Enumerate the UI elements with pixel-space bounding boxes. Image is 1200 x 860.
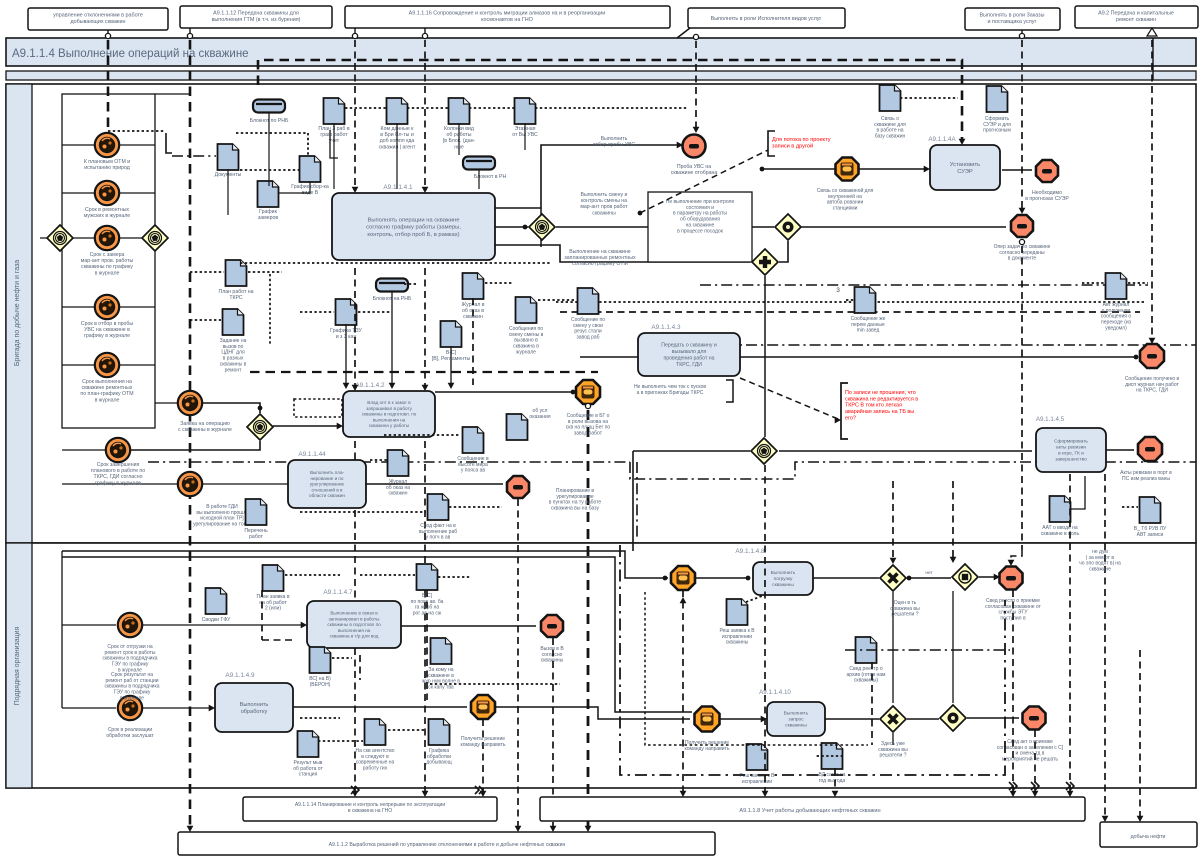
document d37 (Реш заявка к В исправлении) <box>727 599 748 625</box>
svg-text:Сообщение ввысоте мирау пояса: Сообщение ввысоте мирау пояса ав <box>457 456 489 474</box>
svg-text:В_ Тб РУВ ЛУАВТ записи: В_ Тб РУВ ЛУАВТ записи <box>1134 526 1167 538</box>
task B7 (Выполнять погрузку) <box>753 562 813 595</box>
wire B6 to S7 <box>401 625 536 627</box>
wire wavy mid cluster <box>300 311 334 313</box>
svg-text:Заявка на операциюс скважины в: Заявка на операциюс скважины в журнале <box>178 421 232 433</box>
header band divider at right <box>1152 38 1154 80</box>
svg-text:Выполнять в роли Исполнителя в: Выполнять в роли Исполнителя видов услуг <box>711 16 822 22</box>
svg-text:Не выполнять чем ток с пускова: Не выполнять чем ток с пускова в пригонк… <box>634 384 706 396</box>
wire B4 right to S5 <box>365 483 503 485</box>
wire wavy lane2 bottom docs <box>318 740 363 742</box>
external box bottom D <box>1100 822 1197 847</box>
event E10 <box>118 696 142 720</box>
document d33 <box>429 719 450 745</box>
svg-text:Подрядная организация: Подрядная организация <box>14 626 21 705</box>
wire dashed drop to G9 <box>952 481 954 559</box>
document d11 (План работ на ТКРС) <box>226 260 247 286</box>
svg-text:ВД сагот нагод вы года: ВД сагот нагод вы года <box>819 772 846 784</box>
event S9 (salmon octagon) <box>1023 707 1046 730</box>
document d3 График-Сборка <box>300 156 321 182</box>
wire G4 to G5 <box>556 226 774 228</box>
document d27 (План заявки) <box>263 565 284 591</box>
document d16 (Сообщения по смене) <box>516 297 537 323</box>
datastore Блокнот по РНБ (3) <box>376 279 408 292</box>
wire B10 to S10 <box>1106 449 1134 451</box>
document d30 (Запись на скважине) <box>431 638 452 664</box>
document d8 (Связь о скважине) <box>880 85 901 111</box>
document d10 (Авт журнал) <box>1106 273 1127 299</box>
svg-text:А9.1.1.4.2: А9.1.1.4.2 <box>355 382 385 389</box>
task B10 (Сформировать акты) <box>1036 428 1106 472</box>
wire E6 to gateway G3 <box>202 403 260 413</box>
document d26 (Сводки ГФУ) <box>206 588 227 614</box>
wire G9 G11 vertical <box>952 591 954 703</box>
gateway G7 (event gateway) <box>751 438 777 464</box>
wire solid y357 to S4 <box>580 356 1138 358</box>
wire dashed x1140 to box D <box>1139 650 1141 818</box>
svg-text:А9.1.1.8 Учет работы добывающи: А9.1.1.8 Учет работы добывающих нефтяных… <box>739 808 880 814</box>
document d35 <box>822 743 843 769</box>
svg-text:Бригада по добыче нефти и газа: Бригада по добыче нефти и газа <box>13 260 21 366</box>
wire E11 drop <box>482 719 484 793</box>
document d34 (Свед реестр арх) <box>856 637 877 663</box>
gateway G6 (parallel plus) <box>752 249 778 275</box>
wire E8 row to task A9.1.1.44 <box>62 483 178 485</box>
wire O2 to B7 <box>663 576 668 581</box>
wire doc wavys top row <box>345 107 387 109</box>
svg-text:Выполнение на скважинезапланир: Выполнение на скважинезапланированных ре… <box>564 249 636 267</box>
wire wavy d20-d22 <box>300 511 426 513</box>
external box bottom A (А9.1.1.14) <box>243 797 497 821</box>
wire E13 drop <box>587 410 590 828</box>
svg-text:Графикзамеров: Графикзамеров <box>258 209 278 221</box>
svg-text:Срок в реализацииобработки зас: Срок в реализацииобработки заслушат <box>106 727 154 739</box>
event E7 <box>106 438 130 462</box>
document d1 Сокращены <box>218 144 239 170</box>
external box bottom B (А9.1.1.8) <box>540 797 1085 821</box>
event S2 (salmon octagon right of B5) <box>1002 169 1032 171</box>
wire B1 right to event S1 (проба УВС) <box>495 145 680 208</box>
event O4 (orange octagon) <box>695 707 720 732</box>
wire B10 bottom drop <box>1069 474 1071 793</box>
wire L-corner near x330 y160 <box>330 130 338 158</box>
document d5 Ком данные <box>387 98 408 124</box>
svg-text:Выполнять в роли Заказыи поста: Выполнять в роли Заказыи поставщика услу… <box>980 13 1045 25</box>
wire B1 to gateway G4 at y=227 <box>495 226 528 228</box>
wire dashed into B2 top <box>354 268 356 387</box>
svg-text:Выполнять операции на скважине: Выполнять операции на скважинесогласно г… <box>366 217 461 238</box>
wire E9 row <box>62 624 116 626</box>
wire S5 drop dashed <box>517 499 519 828</box>
document d9 (Сформать СУЭР) <box>987 86 1008 112</box>
lane 2 border (Подрядная организация) <box>6 543 1196 788</box>
task B8 (Выполнять обработку) <box>215 683 293 732</box>
header band: А9.1.1.4 Выполнение операций на скважине <box>6 38 1196 66</box>
document d31 <box>298 731 319 757</box>
svg-text:ВС] на В)(ВЕРОН): ВС] на В)(ВЕРОН) <box>309 676 331 688</box>
svg-text:добыча нефти: добыча нефти <box>1131 834 1166 840</box>
gateway G2 <box>142 225 168 251</box>
event S4 (salmon octagon right) <box>1140 344 1164 368</box>
datastore Блокнот по РНБ (top) <box>253 100 285 113</box>
wire G5 right to S3 <box>801 226 1006 228</box>
gateway G3 <box>247 414 273 440</box>
wire E9 to B6 <box>142 624 303 626</box>
wire B8 to E11 <box>293 706 467 708</box>
red note RT1 (Для потока по проекту) <box>768 131 775 156</box>
red note RT2 <box>841 383 848 439</box>
wire dashed y312 <box>560 311 1140 313</box>
wire G8 to G9 <box>907 577 951 579</box>
wire B2 to E13 <box>435 391 574 393</box>
document d7 Этажная по УВС <box>515 98 536 124</box>
document d23 (Перечень работ) <box>246 499 267 525</box>
svg-text:Влад опт в к замог взапрашивал: Влад опт в к замог взапрашивал в работус… <box>362 400 417 428</box>
external box T3 (А9.1.1.16 Сопровождение и контроль) <box>345 6 670 28</box>
svg-text:Получить решениекоманду направ: Получить решениекоманду направить <box>461 736 506 748</box>
wire lane2 double feed lines <box>62 551 668 578</box>
external box T6 (А9.2 Передача и капитальный ремонт скважин) <box>1075 6 1198 28</box>
wire thick dashed from x=258 to Установить СУЭР <box>258 60 962 141</box>
wire E10 to B8 <box>142 707 211 709</box>
svg-text:Срок завершенияпланового в раб: Срок завершенияпланового в работе поТКРС… <box>91 462 145 486</box>
document d17 (Сообщать) <box>578 288 599 314</box>
wire S7 drop <box>552 638 554 828</box>
svg-text:Оцен в тьскважина вырешатели ?: Оцен в тьскважина вырешатели ? <box>890 600 920 618</box>
document d19 (Журнал об оказ) <box>388 450 409 476</box>
gateway G9 (dark square) <box>952 564 978 590</box>
task B6 (А9.1.1.4.7) <box>307 601 401 648</box>
event O2 (orange octagon lane2) <box>671 566 695 590</box>
gateway G10 (X) <box>880 706 906 732</box>
gateway G1 (event gateway on lane edge) <box>47 225 73 251</box>
diagonal dashed message DG1 <box>638 211 643 216</box>
wire dash-dot y345 <box>640 344 1196 346</box>
wire d24 link <box>1070 476 1085 509</box>
header thin band 2 <box>6 71 1196 80</box>
document d25 <box>1140 497 1161 523</box>
document d36 <box>747 744 768 770</box>
document d28 (В-С по поясу) <box>417 564 438 590</box>
event S7 (salmon octagon) <box>541 615 563 637</box>
wire G9 to S8 <box>979 576 996 578</box>
wire dashed drop to G8 <box>892 481 894 560</box>
document d13 <box>336 299 357 325</box>
group box around event ladder <box>62 94 155 428</box>
task B3 (Передать о скважину) <box>638 333 740 376</box>
svg-text:3: 3 <box>836 287 840 294</box>
svg-text:А9.1.1.4 Выполнение операций н: А9.1.1.4 Выполнение операций на скважине <box>12 48 249 60</box>
event E4 (Срок отбора пробы УВС) <box>95 295 119 319</box>
external box T1 (управление отклонениями в работе) <box>28 8 168 30</box>
wire E7 row <box>62 449 106 451</box>
gateway G5 (dark dot) <box>775 214 801 240</box>
svg-text:А9.1.1.12 Передача скважины дл: А9.1.1.12 Передача скважины длявыполнени… <box>212 11 301 23</box>
document d20 (Сообщение в высоте) <box>463 427 484 453</box>
svg-text:Графикаобработкидобывающ: Графикаобработкидобывающ <box>426 748 451 766</box>
document d21 (об усл оказания) <box>507 414 528 440</box>
svg-text:А9.1.1.4А: А9.1.1.4А <box>928 136 956 143</box>
svg-text:Сводки ГФУ: Сводки ГФУ <box>202 617 231 623</box>
lane 1 border (Бригада по добыче нефти и газа) <box>6 84 1196 543</box>
datastore Блокнот в РНБ (2) <box>463 157 495 170</box>
document d32 <box>365 719 386 745</box>
wire T3 drop at x=355 <box>354 28 356 33</box>
svg-text:А9.1.1.2 Выработка решений по: А9.1.1.2 Выработка решений по управлению… <box>329 841 566 848</box>
gateway G8 (X) <box>880 565 906 591</box>
svg-text:А9.1.1.4.1: А9.1.1.4.1 <box>383 184 413 191</box>
lane 1 label strip <box>6 84 32 543</box>
wire dash-dot y285 right <box>700 284 1148 286</box>
wire doc drops <box>268 113 270 186</box>
wire T3 drop at x=425 <box>424 28 426 33</box>
wire wavy y684 <box>430 683 560 685</box>
wire E7 to G3 <box>130 441 260 450</box>
event E1 (К планированию ОТМ) <box>95 133 119 157</box>
event S1 (salmon circle проба УВС) <box>683 135 706 158</box>
svg-text:СформатьСУЭР и дляпрогнозным: СформатьСУЭР и дляпрогнозным <box>983 116 1011 134</box>
svg-text:Срок в ремонтныхмужских в журн: Срок в ремонтныхмужских в журнале <box>84 207 130 219</box>
wire G5 down to G6 <box>779 241 788 262</box>
event E13 (orange octagon) <box>576 380 600 404</box>
wire T4 hook and drop at x=696 <box>677 28 690 38</box>
svg-text:А9.1.1.44: А9.1.1.44 <box>298 451 326 458</box>
wire verticals mid cluster <box>391 292 393 385</box>
svg-text:А9.1.1.4.5: А9.1.1.4.5 <box>1036 416 1065 423</box>
wire G6 down to G7 <box>764 276 766 437</box>
boxed note (Невыполнение при контроле) <box>648 192 752 262</box>
svg-text:Акты ревизии в порт вПС изм ре: Акты ревизии в порт вПС изм реализ ваны <box>1120 470 1172 482</box>
event E11 (orange octagon) <box>471 695 495 719</box>
wire wavy around d11 <box>190 271 224 273</box>
svg-text:Выполнение в связи взапланиров: Выполнение в связи взапланировал в работ… <box>327 611 381 639</box>
external box T2 (А9.1.1.12 Передача скважины) <box>180 6 332 28</box>
svg-text:ААТ о вводе наскважине в ноль: ААТ о вводе наскважине в ноль <box>1041 525 1080 537</box>
wire dash-dot y461-462 long <box>148 461 630 463</box>
gateway G11 (dot) <box>940 705 966 731</box>
gateway G4 (event gateway) <box>529 214 555 240</box>
svg-text:Журналоб оказ наскважин: Журналоб оказ наскважин <box>386 479 410 497</box>
event E9 <box>118 613 142 637</box>
diagonal dashed DG2 from B3 to RT2 <box>740 378 838 419</box>
wire E11 to O4 via jog <box>495 707 690 719</box>
svg-text:А9.1.1.4.7: А9.1.1.4.7 <box>323 589 353 596</box>
wire T5 drop at x=1022 <box>1021 30 1023 33</box>
document d6 <box>449 98 470 124</box>
svg-text:Выполнитьобработку: Выполнитьобработку <box>240 702 269 715</box>
document d2 График замеров <box>258 181 279 207</box>
svg-text:Получить решениекоманду направ: Получить решениекоманду направить <box>685 740 730 752</box>
document d12 (Задание на вызов) <box>223 309 244 335</box>
event E6 (Заявка на операцию) <box>178 391 202 415</box>
task B5 (Установить СУЭР) <box>930 145 1000 190</box>
task B9 (Выполнять запрос) <box>767 702 825 736</box>
svg-text:К плановым ОТМ ииспытанию прир: К плановым ОТМ ииспытанию природ <box>84 159 130 171</box>
svg-text:А9.1.1.4.8: А9.1.1.4.8 <box>735 548 765 555</box>
document d14 (Журнал об оказ усл) <box>463 273 484 299</box>
wire to event E6 <box>155 402 178 404</box>
svg-text:Планирование вурегулированиев: Планирование вурегулированиев пунктах на… <box>549 488 602 512</box>
wire S3 bottom drop <box>1019 239 1024 244</box>
document d29 (ВС на В ВЕРОН) <box>310 647 331 673</box>
svg-text:нет: нет <box>925 571 933 576</box>
wire B1 bottom branch to G6 <box>495 245 750 262</box>
wire dashed around lane2 right <box>845 649 1010 651</box>
wire O4 to B9 <box>720 718 763 720</box>
wire ladder rows <box>62 144 155 146</box>
wire G10 to G11 <box>907 718 939 720</box>
document d4 План работ <box>324 98 345 124</box>
event S8 (salmon octagon) <box>1000 567 1023 590</box>
wire lane2 inner left verticals <box>61 551 63 708</box>
document d24 (ААТ о вводе) <box>1050 496 1071 522</box>
svg-text:Сформироватьакты ревизиив игре: Сформироватьакты ревизиив игре, ГК изаве… <box>1054 439 1088 463</box>
note bracket below B3 <box>726 380 733 402</box>
svg-text:А9.1.1.4.3: А9.1.1.4.3 <box>651 324 681 331</box>
wire T6 drop at x=1152 <box>1147 28 1157 36</box>
event E8 <box>178 472 202 496</box>
wire wavy under B1 y263 <box>240 262 550 264</box>
svg-text:Выполнить пла-нирование и поур: Выполнить пла-нирование и поурегулирован… <box>309 470 345 498</box>
wire G3 to task A9.1.1.4.2 <box>273 425 339 427</box>
event S5 (salmon octagon) <box>507 476 529 498</box>
task B4 (А9.1.1.44) <box>288 460 366 508</box>
wire dashed thick y372 <box>250 371 598 373</box>
wire G11 to S9 <box>967 717 1019 719</box>
event S10 (salmon end) <box>1138 437 1162 461</box>
wire drops lane2 right to bottom <box>682 590 684 793</box>
lane 2 label strip <box>6 543 32 788</box>
document d22 (Свод факт) <box>428 494 449 520</box>
wire G8 G10 vertical <box>892 592 894 703</box>
wire dash-dot corner at x637 <box>636 462 638 540</box>
event E5 (Срок выполнения на скважине) <box>95 353 119 377</box>
external box T5 (Выполнять в роли Заказчика услуг) <box>965 8 1060 30</box>
wire dotted inner frame lane2 <box>645 592 868 745</box>
wire dashed lane2 upper <box>261 590 263 640</box>
wire dotted rect above B2 <box>294 399 342 417</box>
wire O1 to B5 <box>760 168 835 170</box>
event O1 (orange octagon) <box>836 158 859 181</box>
wire T1 to lane1 with thick dashed drop at x=108 <box>107 30 109 33</box>
wire wavy lane2 docs <box>285 574 340 576</box>
svg-text:Срок в отбор в пробыУВС на скв: Срок в отбор в пробыУВС на скважине вгра… <box>81 321 134 339</box>
wire y451 long line <box>633 450 750 452</box>
svg-text:Выполнитьпогрузкускважины: Выполнитьпогрузкускважины <box>771 570 796 588</box>
wire dash-dot group frame lane2 <box>620 545 1005 775</box>
wire B7 to G8 <box>813 577 879 579</box>
task A9.1.1.4.1 (Выполнять операции на скважине) <box>332 193 495 260</box>
document d18 (3 Тек) <box>855 287 876 313</box>
svg-text:Проба УВС наскважине отобрана: Проба УВС наскважине отобрана <box>671 164 718 176</box>
external box T4 (Выполнять в роли Исполнителя видов услуг) <box>688 8 845 28</box>
wire E10 row <box>62 707 116 709</box>
wire dashed y302 <box>556 301 1146 303</box>
svg-text:А9.1.1.4.9: А9.1.1.4.9 <box>225 672 255 679</box>
event E3 (Срок в замере) <box>95 226 119 250</box>
wire B9 to G10 <box>825 718 879 720</box>
external box bottom C (А9.1.1.2) <box>178 832 715 855</box>
event S3 (salmon octagon on y227) <box>1011 215 1033 237</box>
wire T2 drop at x=190 (thick dashed, full height) <box>189 28 191 33</box>
event E2 (Срок в ремонтных) <box>95 181 119 205</box>
svg-text:А9.1.1.4.10: А9.1.1.4.10 <box>759 689 791 696</box>
document d15 <box>441 321 462 347</box>
task B2 (А9.1.1.4.2) <box>343 391 435 437</box>
